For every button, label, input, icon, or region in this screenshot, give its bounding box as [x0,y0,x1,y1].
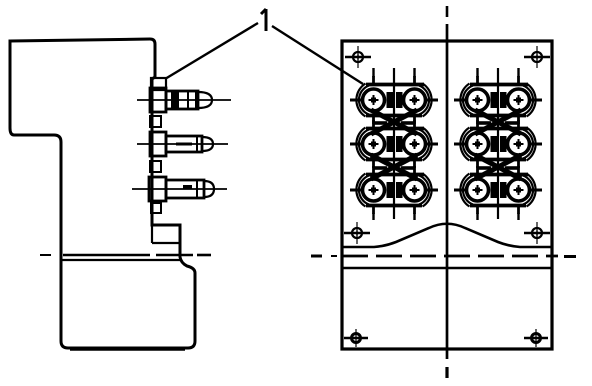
stud tick below row3 right pair a [476,213,478,220]
fitting row1 cap [198,92,212,108]
leader line to left view [165,23,258,79]
column centerline right pair [497,68,499,219]
stud tick above row1 right pair b [517,68,519,77]
leader line to right view [272,26,363,84]
left view step box left edge [151,225,153,243]
fitting row3 centerline [132,188,227,190]
fitting row1 hex dark [171,92,179,108]
left view boss between row2 row3 [150,161,161,172]
lower joint line [342,267,552,270]
cluster row1 left [350,76,438,124]
column centerline left pair [393,68,395,219]
stud tick below row3 left pair b [413,213,415,220]
cluster row2 left [350,120,438,168]
left view lower block top edge [62,259,181,261]
cluster row1 right [454,76,542,124]
fitting row2 hex line [196,137,198,151]
left view body outline [10,39,195,348]
fitting row3 flange [149,177,166,201]
fitting row2 body [166,136,202,152]
mounting hole bottom left [344,329,368,347]
fitting row3 hex line [196,181,198,197]
cluster row3 left [350,166,438,214]
s-link left column gap2 [371,155,417,179]
s-link right column gap2 [475,155,521,179]
fitting row1 flange [150,88,166,112]
fitting row2 centerline [137,143,228,145]
stud tick above row1 left pair b [413,68,415,77]
left view boss below row3 [151,203,161,213]
cluster row2 right [454,120,542,168]
fitting row2 cap [202,137,213,151]
mounting hole mid right [524,222,550,244]
fitting row2 flange [150,132,166,156]
stud tick above row1 left pair a [372,68,374,77]
stud tick above row1 right pair a [476,68,478,77]
fitting row1 centerline [137,99,231,101]
left view step box bottom edge [152,242,180,244]
hump curve [342,224,552,247]
left view boss between row1 row2 [150,116,161,127]
left view bottom edge blotch [70,348,185,351]
s-link right column gap1 [475,110,521,134]
vertical centerline [446,24,449,359]
left view top boss [151,78,166,90]
mounting hole top right [524,46,550,68]
callout label 1 [261,9,266,31]
fitting row3 inner mark [183,185,192,189]
stud tick below row3 left pair a [372,213,374,220]
horizontal centerline gap dash [197,254,211,257]
vertical centerline top dash [446,6,449,17]
mounting hole mid left [344,222,370,244]
fitting row1 body [166,91,198,109]
cluster row3 right [454,166,542,214]
s-link left column gap1 [371,110,417,134]
mounting hole top left [345,46,371,68]
stud tick below row3 right pair b [517,213,519,220]
mounting hole bottom right [524,329,548,347]
fitting row1 hex line A [187,92,189,108]
fitting row3 body [166,180,204,198]
horizontal centerline right view [342,255,558,258]
vertical centerline bottom dash [445,367,448,378]
fitting row2 inner dash [176,143,192,146]
horizontal centerline left view [40,254,51,256]
plate outline [342,41,552,349]
fitting row3 cap [204,181,214,197]
fitting row1 hex line B [195,92,197,108]
